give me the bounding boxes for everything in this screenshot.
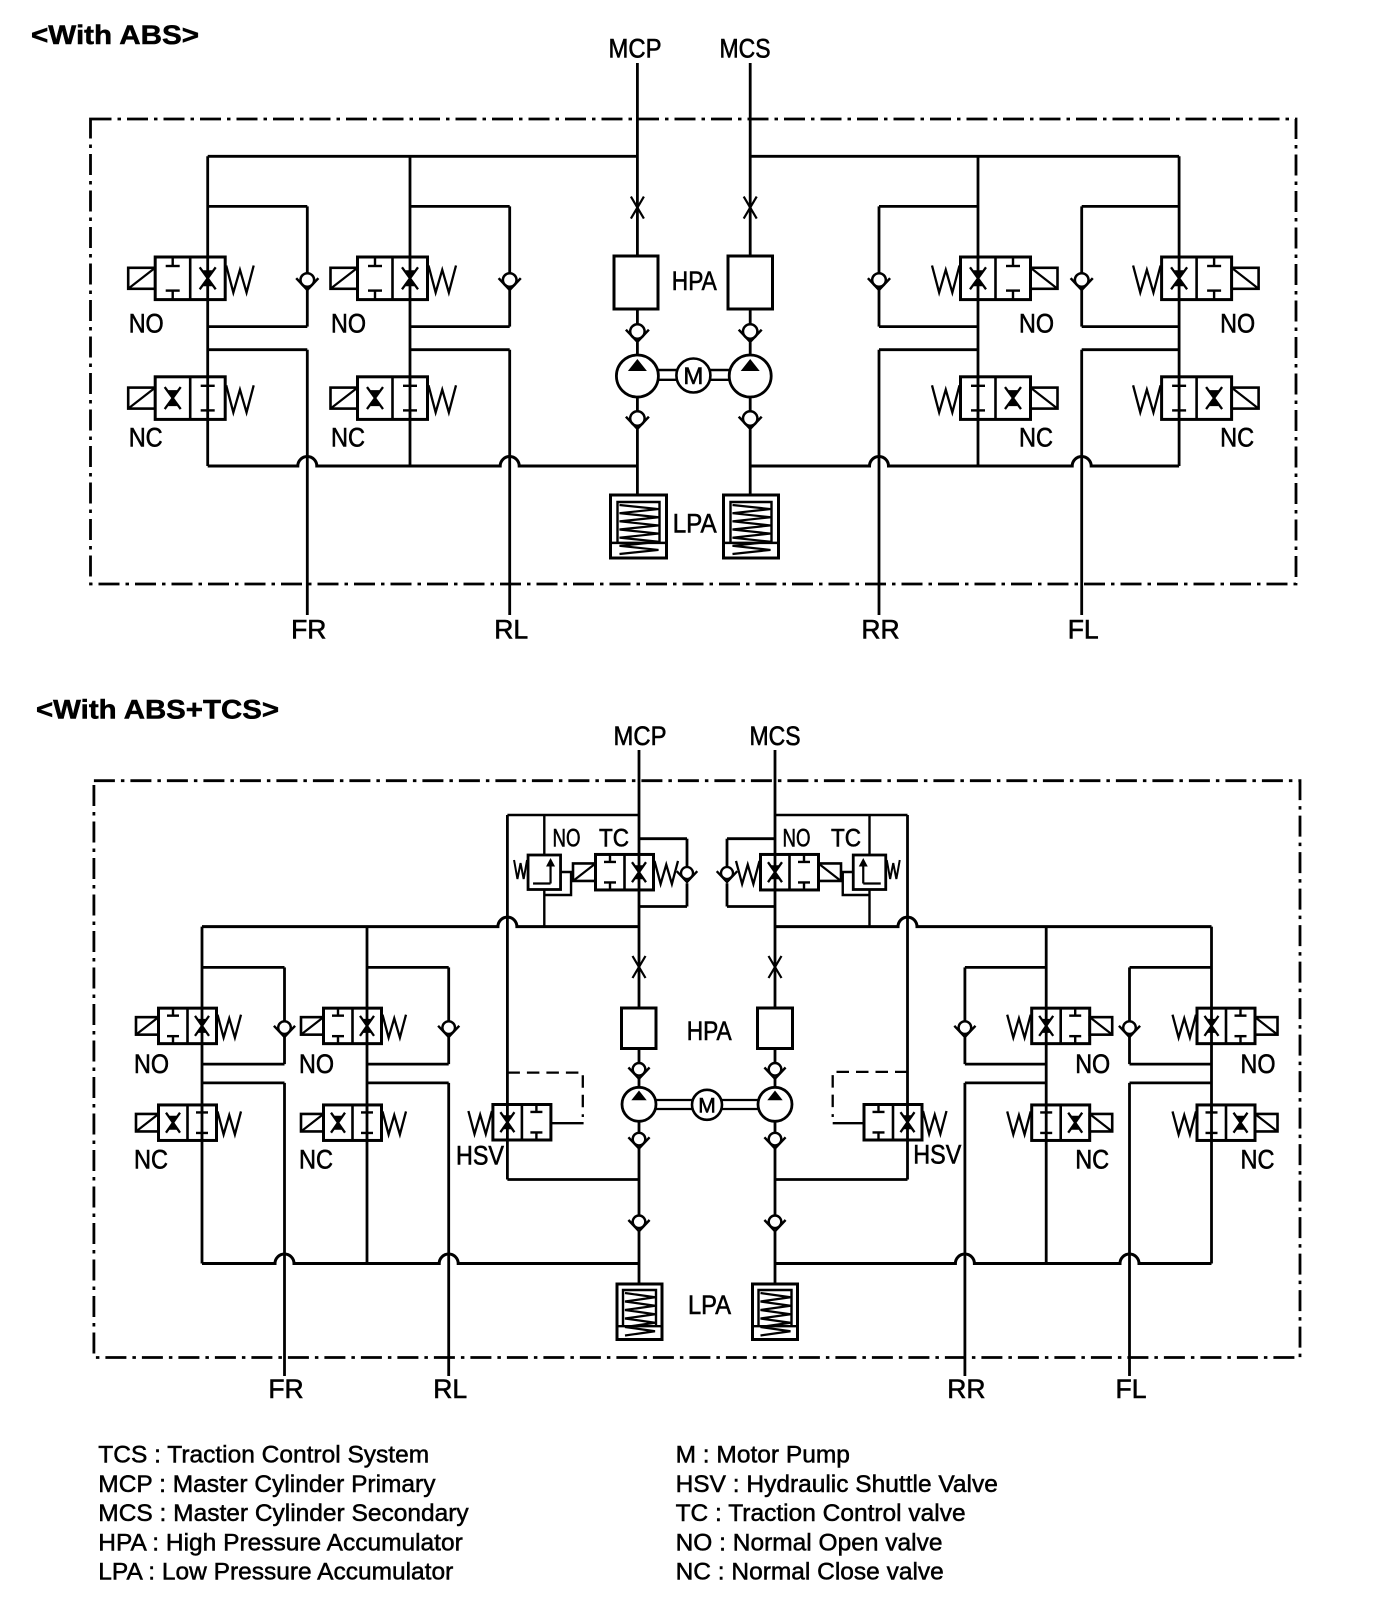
svg-text:NC: NC <box>1241 1145 1275 1175</box>
label wheel RL (bottom) <box>433 1374 467 1404</box>
wire MCS supply <box>749 63 752 256</box>
solenoid valve NC RR (top) <box>932 377 1058 420</box>
check valve bypass RR (bottom) <box>954 1021 975 1037</box>
title: With ABS+TCS <box>36 695 279 725</box>
wire HSV supply line primary <box>506 815 509 1140</box>
wire main line RR (bottom) <box>1045 927 1048 1264</box>
shuttle valve HSV secondary <box>864 1104 947 1140</box>
svg-text:NC: NC <box>134 1145 168 1175</box>
orifice MCS <box>744 197 757 219</box>
check valve above pump secondary (bottom) <box>764 1063 785 1079</box>
wire MCP supply (bottom) <box>638 750 641 1008</box>
solenoid valve NO RR (top) <box>932 257 1058 300</box>
label wheel RR (top) <box>861 615 899 645</box>
label NC RL (top) <box>331 423 365 453</box>
wire check bypass RL (top) <box>410 206 510 326</box>
solenoid valve NC RL (bottom) <box>301 1105 406 1141</box>
label NO TC primary <box>553 825 630 853</box>
shuttle valve HSV primary <box>468 1104 551 1140</box>
wire TC block top branch primary <box>507 814 639 817</box>
wire MCS supply (bottom) <box>774 750 777 1008</box>
label MCP (bottom) <box>614 721 667 751</box>
svg-text:M: M <box>698 1094 716 1117</box>
svg-text:LPA : Low Pressure Accumulator: LPA : Low Pressure Accumulator <box>98 1559 453 1586</box>
label MCS <box>720 34 771 64</box>
wire wheel branch RL (bottom) <box>367 1083 449 1376</box>
HCU boundary box (bottom diagram) <box>94 781 1300 1358</box>
svg-text:TCS : Traction Control System: TCS : Traction Control System <box>98 1442 429 1469</box>
svg-text:FL: FL <box>1068 615 1099 645</box>
label HPA (bottom) <box>687 1016 732 1046</box>
wire HSV to pump primary <box>507 1140 639 1180</box>
wire TC check bypass primary <box>639 839 687 907</box>
wire main line FL (bottom) <box>1210 927 1213 1264</box>
label wheel FR (top) <box>291 615 326 645</box>
solenoid valve NO FR (bottom) <box>136 1008 241 1044</box>
accumulator LPA secondary (bottom) <box>753 1284 798 1340</box>
shaft pump-motor right (bottom) <box>722 1100 758 1109</box>
title: With ABS <box>31 20 199 50</box>
solenoid valve NC RR (bottom) <box>1007 1105 1112 1141</box>
motor M <box>676 359 710 393</box>
wire main line RL (top) <box>409 156 412 466</box>
solenoid valve NO FL (top) <box>1133 257 1259 300</box>
check valve TC bypass secondary <box>717 867 738 882</box>
wire pump suction secondary (bottom) <box>774 1121 777 1284</box>
orifice MCP (bottom) <box>633 956 646 978</box>
relief valve primary <box>514 855 571 895</box>
legend abbreviations <box>98 1442 998 1586</box>
svg-text:HPA: HPA <box>687 1016 732 1046</box>
svg-text:NC: NC <box>1019 423 1053 453</box>
accumulator HPA secondary (bottom) <box>758 1008 793 1049</box>
wire pump to LPA (primary) <box>636 397 639 495</box>
label NO FR (top) <box>129 309 164 339</box>
wire HPA to pump primary (bottom) <box>638 1049 641 1088</box>
return bus secondary (top) <box>750 457 1179 467</box>
svg-text:NO: NO <box>553 825 581 853</box>
motor M (bottom) <box>692 1090 722 1120</box>
accumulator LPA secondary <box>724 495 779 558</box>
HCU boundary box (top diagram) <box>91 119 1297 584</box>
solenoid valve NO FL (bottom) <box>1173 1008 1278 1044</box>
wire HPA to pump (primary) <box>636 309 639 356</box>
label LPA (bottom) <box>688 1290 731 1320</box>
check valve below pump (primary) <box>626 411 649 429</box>
solenoid valve NC RL (top) <box>331 377 457 420</box>
svg-text:TC: TC <box>599 825 629 853</box>
svg-text:NO : Normal Open valve: NO : Normal Open valve <box>676 1529 943 1556</box>
accumulator HPA primary (bottom) <box>622 1008 657 1049</box>
label NO FR (bottom) <box>134 1049 169 1079</box>
return bus primary (top) <box>208 457 638 467</box>
label wheel FL (top) <box>1068 615 1099 645</box>
label NC FL (top) <box>1220 423 1254 453</box>
wire check bypass FR (bottom) <box>202 967 285 1064</box>
shaft pump-motor left (bottom) <box>656 1100 692 1109</box>
wire main line RL (bottom) <box>366 927 369 1264</box>
wire pump to LPA (secondary) <box>749 397 752 495</box>
svg-text:<With ABS>: <With ABS> <box>31 20 199 50</box>
wire main line RR (top) <box>977 156 980 466</box>
check valve bypass FL (bottom) <box>1119 1021 1140 1037</box>
label NC RL (bottom) <box>299 1145 333 1175</box>
solenoid valve TC primary <box>573 854 678 890</box>
label NO TC secondary <box>783 825 862 853</box>
wire check bypass FL (top) <box>1082 206 1179 326</box>
svg-text:FR: FR <box>291 615 326 645</box>
wire HSV to pump secondary <box>775 1140 908 1180</box>
wire HSV pilot primary (dashed) <box>507 1073 583 1124</box>
label NC FR (top) <box>129 423 163 453</box>
svg-text:NO: NO <box>1075 1049 1110 1079</box>
svg-text:LPA: LPA <box>673 509 717 539</box>
check valve bypass RR (top) <box>868 273 890 290</box>
wire HSV supply line secondary <box>906 815 909 1140</box>
label NC FL (bottom) <box>1241 1145 1275 1175</box>
svg-text:MCS : Master Cylinder Secondar: MCS : Master Cylinder Secondary <box>98 1500 469 1527</box>
svg-text:NO: NO <box>134 1049 169 1079</box>
wire wheel branch RR (top) <box>879 350 978 615</box>
wire check bypass RR (top) <box>879 206 978 326</box>
wire main line FR (bottom) <box>201 927 204 1264</box>
svg-text:HSV: HSV <box>913 1140 961 1170</box>
orifice MCP <box>631 197 644 219</box>
wire relief valve stems secondary <box>868 815 870 927</box>
label MCP <box>609 34 662 64</box>
label NO RR (top) <box>1019 309 1054 339</box>
wire HPA to pump (secondary) <box>749 309 752 356</box>
check valve bypass FR (bottom) <box>274 1021 295 1037</box>
check valve below pump (secondary) <box>739 411 762 429</box>
svg-text:FR: FR <box>268 1374 303 1404</box>
wire check bypass RL (bottom) <box>367 967 449 1064</box>
svg-text:TC : Traction Control valve: TC : Traction Control valve <box>676 1500 966 1527</box>
wire wheel branch RL (top) <box>410 350 510 615</box>
check valve suction primary (bottom) <box>628 1216 649 1232</box>
label wheel RR (bottom) <box>947 1374 985 1404</box>
svg-text:RL: RL <box>433 1374 467 1404</box>
svg-text:TC: TC <box>831 825 861 853</box>
svg-text:NO: NO <box>299 1049 334 1079</box>
svg-text:NC: NC <box>299 1145 333 1175</box>
label NC FR (bottom) <box>134 1145 168 1175</box>
solenoid valve TC secondary <box>736 854 841 890</box>
wire MCP supply <box>636 63 639 256</box>
pump primary <box>616 355 658 397</box>
label NC RR (top) <box>1019 423 1053 453</box>
label wheel RL (top) <box>494 615 528 645</box>
svg-text:MCS: MCS <box>720 34 771 64</box>
check valve suction secondary (bottom) <box>764 1216 785 1232</box>
svg-text:HPA: HPA <box>672 266 717 296</box>
accumulator LPA primary <box>611 495 667 558</box>
orifice MCS (bottom) <box>769 956 782 978</box>
svg-text:HSV: HSV <box>456 1141 504 1171</box>
supply bus primary (bottom) <box>202 917 639 926</box>
check valve above pump (primary) <box>626 324 649 342</box>
wire wheel branch FR (bottom) <box>202 1083 285 1376</box>
svg-text:NC: NC <box>1220 423 1254 453</box>
svg-text:NO: NO <box>1220 309 1255 339</box>
svg-text:NC : Normal Close valve: NC : Normal Close valve <box>676 1559 944 1586</box>
wire relief valve stems primary <box>543 815 545 927</box>
check valve above pump primary (bottom) <box>628 1063 649 1079</box>
check valve bypass FR (top) <box>296 273 318 290</box>
svg-text:NC: NC <box>1075 1145 1109 1175</box>
svg-text:MCS: MCS <box>750 721 801 751</box>
pump secondary <box>729 355 771 397</box>
relief valve secondary <box>843 855 900 895</box>
wire check bypass FL (bottom) <box>1130 967 1212 1064</box>
supply bus primary (top) <box>208 155 638 158</box>
check valve below pump primary (bottom) <box>628 1133 649 1149</box>
svg-text:HPA : High Pressure Accumulato: HPA : High Pressure Accumulator <box>98 1529 462 1556</box>
solenoid valve NO RL (bottom) <box>301 1008 406 1044</box>
svg-text:NO: NO <box>1241 1049 1276 1079</box>
wire check bypass FR (top) <box>208 206 308 326</box>
svg-text:NO: NO <box>331 309 366 339</box>
label HSV secondary <box>913 1140 961 1170</box>
shaft pump-motor right <box>710 370 729 380</box>
label NO RL (top) <box>331 309 366 339</box>
label HSV primary <box>456 1141 504 1171</box>
return bus secondary (bottom) <box>775 1254 1212 1264</box>
svg-text:<With ABS+TCS>: <With ABS+TCS> <box>36 695 279 725</box>
label NO FL (top) <box>1220 309 1255 339</box>
label wheel FR (bottom) <box>268 1374 303 1404</box>
svg-text:RL: RL <box>494 615 528 645</box>
wire main line FL (top) <box>1178 156 1181 466</box>
wire check bypass RR (bottom) <box>965 967 1046 1064</box>
wire wheel branch FL (bottom) <box>1130 1083 1212 1376</box>
svg-text:NO: NO <box>783 825 811 853</box>
label NO RR (bottom) <box>1075 1049 1110 1079</box>
svg-text:RR: RR <box>947 1374 985 1404</box>
svg-text:RR: RR <box>861 615 899 645</box>
label HPA <box>672 266 717 296</box>
wire wheel branch FL (top) <box>1082 350 1179 615</box>
label NO RL (bottom) <box>299 1049 334 1079</box>
svg-text:M : Motor Pump: M : Motor Pump <box>676 1442 850 1469</box>
check valve below pump secondary (bottom) <box>764 1133 785 1149</box>
supply bus secondary (top) <box>750 155 1179 158</box>
svg-text:MCP : Master Cylinder Primary: MCP : Master Cylinder Primary <box>98 1471 436 1498</box>
shaft pump-motor left <box>658 370 676 380</box>
check valve bypass FL (top) <box>1071 273 1093 290</box>
wire HSV pilot secondary (dashed) <box>833 1072 908 1123</box>
svg-text:NO: NO <box>1019 309 1054 339</box>
label NC RR (bottom) <box>1075 1145 1109 1175</box>
pump secondary (bottom) <box>758 1087 792 1121</box>
solenoid valve NC FL (top) <box>1133 377 1259 420</box>
solenoid valve NO RL (top) <box>331 257 457 300</box>
svg-text:NC: NC <box>331 423 365 453</box>
svg-text:LPA: LPA <box>688 1290 731 1320</box>
check valve TC bypass primary <box>677 867 698 882</box>
accumulator HPA primary <box>614 256 658 309</box>
svg-text:NC: NC <box>129 423 163 453</box>
svg-text:FL: FL <box>1116 1374 1147 1404</box>
solenoid valve NC FR (bottom) <box>136 1105 241 1141</box>
svg-text:M: M <box>683 363 703 390</box>
wire TC block top branch secondary <box>775 814 908 817</box>
solenoid valve NC FR (top) <box>128 377 254 420</box>
wire wheel branch FR (top) <box>208 350 308 615</box>
label MCS (bottom) <box>750 721 801 751</box>
wire TC check bypass secondary <box>727 839 775 907</box>
wire main line FR (top) <box>206 156 209 466</box>
label LPA <box>673 509 717 539</box>
label NO FL (bottom) <box>1241 1049 1276 1079</box>
svg-text:NO: NO <box>129 309 164 339</box>
solenoid valve NO RR (bottom) <box>1007 1008 1112 1044</box>
accumulator HPA secondary <box>728 256 773 309</box>
check valve above pump (secondary) <box>739 324 762 342</box>
pump primary (bottom) <box>622 1087 656 1121</box>
wire HPA to pump secondary (bottom) <box>774 1049 777 1088</box>
supply bus secondary (bottom) <box>775 917 1212 927</box>
svg-text:HSV : Hydraulic Shuttle Valve: HSV : Hydraulic Shuttle Valve <box>676 1471 998 1498</box>
svg-text:MCP: MCP <box>614 721 667 751</box>
check valve bypass RL (top) <box>499 273 521 290</box>
wire pump suction primary (bottom) <box>638 1121 641 1284</box>
svg-text:MCP: MCP <box>609 34 662 64</box>
wire wheel branch RR (bottom) <box>965 1083 1046 1376</box>
solenoid valve NO FR (top) <box>128 257 254 300</box>
label wheel FL (bottom) <box>1116 1374 1147 1404</box>
solenoid valve NC FL (bottom) <box>1173 1105 1278 1141</box>
return bus primary (bottom) <box>202 1254 639 1264</box>
check valve bypass RL (bottom) <box>438 1021 459 1037</box>
accumulator LPA primary (bottom) <box>617 1284 662 1340</box>
